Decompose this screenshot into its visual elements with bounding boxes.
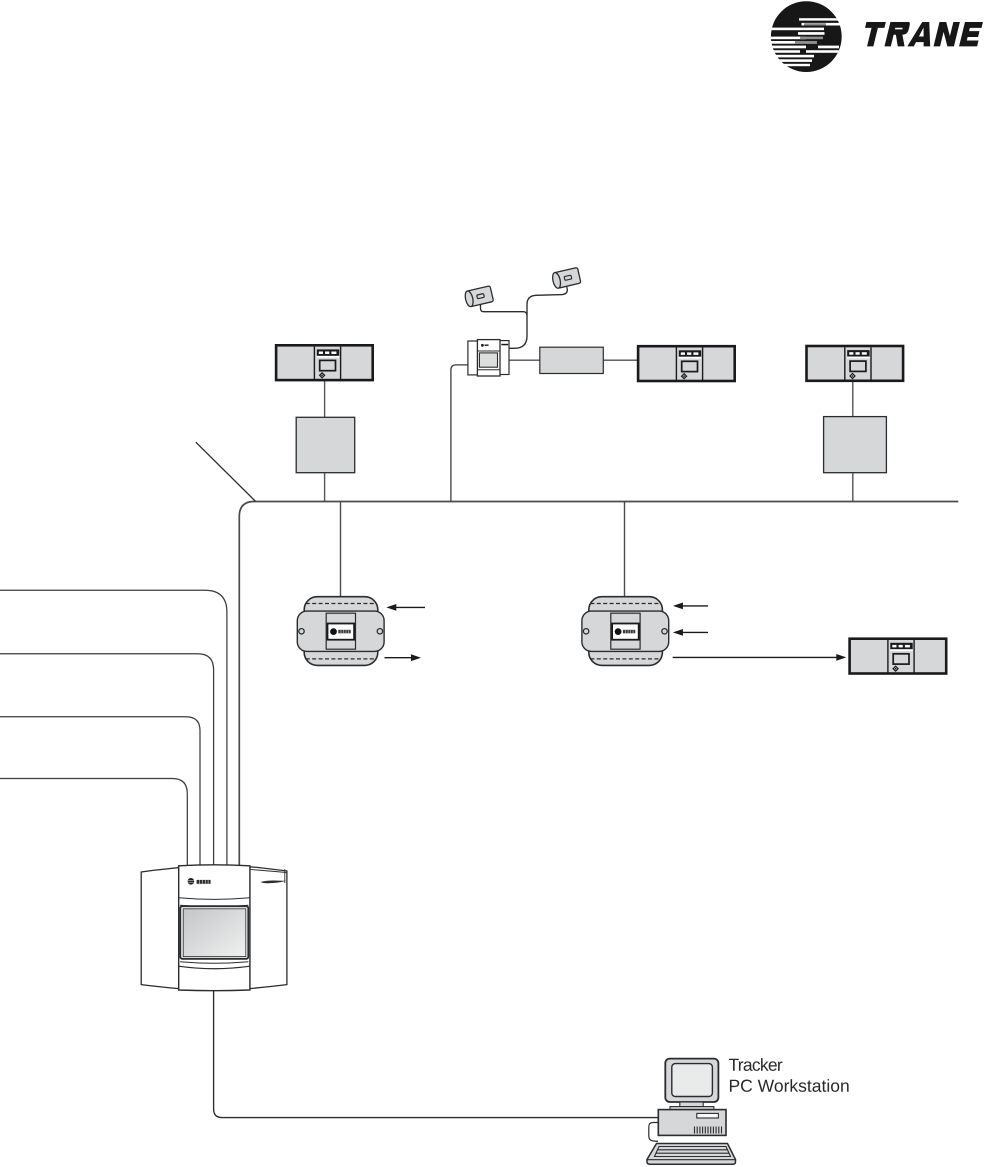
ReliaTel module 2	[582, 597, 669, 666]
duct sensor 1	[464, 286, 494, 308]
wire: panel3 to gray unit box 2 and trunk	[852, 382, 854, 501]
duct sensor 2	[551, 267, 581, 289]
wire: zone sensor to converter box	[509, 359, 540, 361]
wire: trunk drop to module 1	[340, 502, 342, 597]
rooftop unit panel 4	[850, 639, 947, 674]
Tracker PC workstation	[647, 1059, 736, 1165]
wire: converter box to panel 2	[603, 359, 637, 361]
rooftop unit panel 3	[807, 346, 904, 381]
gray unit box 1	[296, 417, 355, 472]
arrow 1 into module 2	[673, 603, 708, 610]
arrow 2 into module 2	[673, 629, 708, 636]
wire: BCU down to PC workstation	[214, 989, 659, 1118]
wire: trunk drop to module 2	[624, 502, 626, 597]
arrow module 2 to panel 4	[673, 654, 847, 661]
wire: sensor 1 lead	[481, 305, 528, 316]
callout diagonal line to trunk	[196, 442, 256, 501]
rooftop unit panel 2	[638, 346, 735, 381]
wire: panel1 to gray unit box 1 and trunk	[324, 381, 326, 501]
svg-text:Tracker: Tracker	[728, 1055, 782, 1075]
wire: zone link 2 from left edge	[0, 654, 214, 867]
wire: zone link 3 from left edge	[0, 717, 200, 867]
wire: comm trunk with left drop to BCU	[239, 502, 958, 868]
gray unit box 2	[824, 417, 887, 473]
svg-text:PC Workstation: PC Workstation	[728, 1076, 849, 1096]
arrow into module 1	[386, 604, 425, 611]
arrow out of module 1	[385, 654, 422, 661]
zone sensor (thermostat)	[468, 340, 509, 376]
Trane logo emblem	[771, 1, 842, 72]
wire: zone link 1 from left edge	[0, 590, 227, 867]
BCU building control unit	[141, 865, 287, 991]
wire: zone link 4 from left edge	[0, 779, 187, 868]
wire: zone sensor left lead down to trunk	[451, 365, 468, 501]
converter gray box	[540, 347, 604, 373]
wire: sensor 2 lead down to zone sensor	[509, 287, 567, 348]
rooftop unit panel 1	[276, 345, 373, 380]
Trane logo wordmark	[861, 22, 984, 46]
ReliaTel module 1	[297, 597, 384, 666]
